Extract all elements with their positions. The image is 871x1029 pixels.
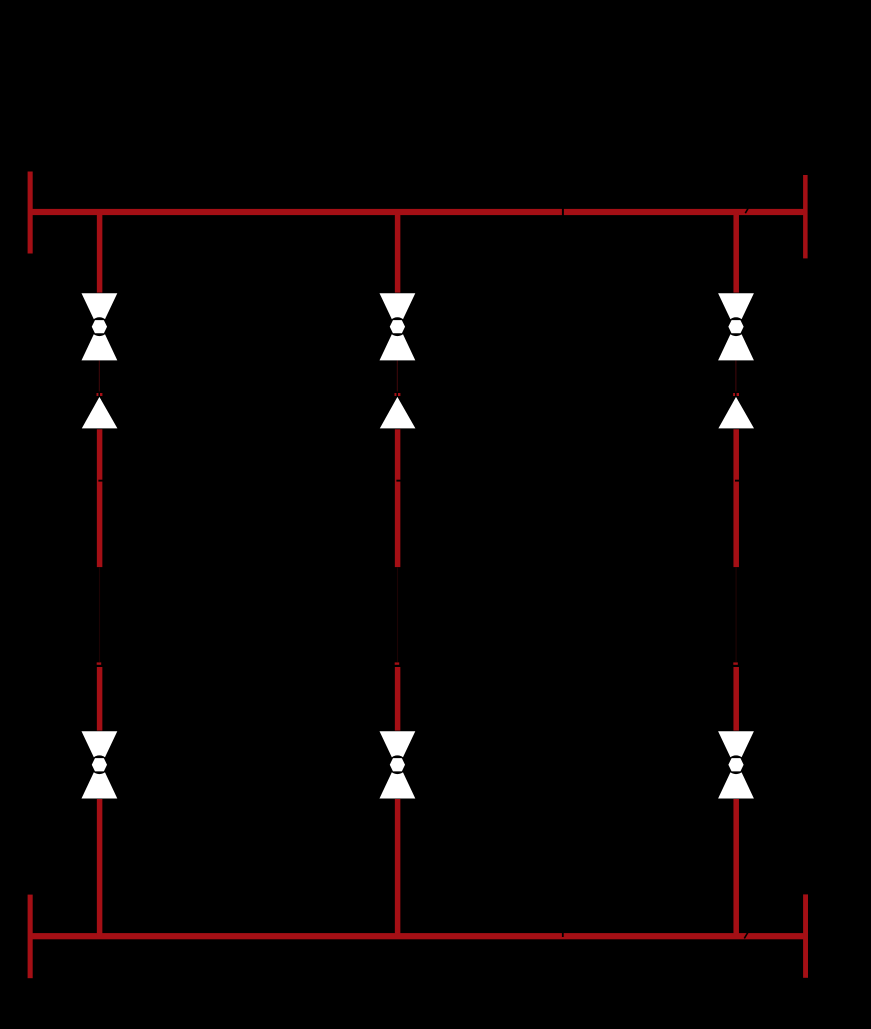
branch 2: hairline pipe seam below valve V2A	[397, 361, 398, 392]
valve V3A (bow-tie gate valve)	[718, 293, 754, 360]
branch 3: red stub above lower pipe segment	[733, 662, 738, 664]
branch 1: red pin dots above check valve CV1	[97, 393, 99, 396]
branch 1: pipe segment from top header to valve V1A	[97, 212, 103, 293]
top header right end cap	[803, 175, 808, 258]
branch 1: hairline pipe seam below valve V1A	[99, 361, 100, 392]
branch 3: pipe segment from top header to valve V3A	[733, 212, 739, 293]
branch 3: pipe segment down to valve V3B	[733, 667, 739, 731]
branch 3: faint pipe seam through pump gap	[736, 567, 737, 662]
check valve CV3 (white up triangle)	[718, 397, 754, 429]
branch 2: black tick crossing pipe (node N2)	[396, 480, 401, 482]
check valve CV2 (white up triangle)	[380, 397, 416, 429]
branch 2: pipe segment down to valve V2B	[395, 667, 401, 731]
bottom header right end cap	[803, 894, 808, 977]
branch 3: red pin dots above check valve CV3	[733, 393, 735, 396]
branch 2: red stub above lower pipe segment	[395, 662, 400, 664]
branch 2: pipe segment from top header to valve V2A	[395, 212, 401, 293]
branch 1: pipe segment below check valve CV1	[97, 429, 103, 567]
branch 1: faint pipe seam through pump gap	[99, 567, 100, 662]
black crossing tick on top header (node T1)	[562, 206, 564, 217]
black crossing tick on bottom header (node B1)	[562, 931, 564, 938]
black slash mark on bottom header	[744, 933, 748, 939]
branch 3: pipe segment below check valve CV3	[733, 429, 739, 567]
branch 3: hairline pipe seam below valve V3A	[735, 361, 736, 392]
valve V2B (bow-tie gate valve)	[380, 731, 416, 798]
valve V1A (bow-tie gate valve)	[82, 293, 118, 360]
valve V1B (bow-tie gate valve)	[82, 731, 118, 798]
top header pipe P1	[30, 209, 806, 215]
branch 2: faint pipe seam through pump gap	[397, 567, 398, 662]
bottom header pipe P2	[30, 933, 806, 939]
branch 2: red pin dots above check valve CV2	[395, 393, 397, 396]
branch 1: red stub above lower pipe segment	[97, 662, 102, 664]
top header left end cap	[28, 172, 33, 254]
branch 1: pipe segment from valve V1B to bottom header	[97, 799, 103, 936]
branch 3: black tick crossing pipe (node N3)	[735, 480, 740, 482]
branch 1: black tick crossing pipe (node N1)	[98, 480, 103, 482]
branch 2: pipe segment from valve V2B to bottom header	[395, 799, 401, 936]
valve V2A (bow-tie gate valve)	[380, 293, 416, 360]
black slash mark on top header	[745, 208, 748, 213]
branch 2: pipe segment below check valve CV2	[395, 429, 401, 567]
bottom header left end cap	[28, 895, 33, 979]
branch 1: pipe segment down to valve V1B	[97, 667, 103, 731]
check valve CV1 (white up triangle)	[82, 397, 118, 429]
branch 3: pipe segment from valve V3B to bottom header	[733, 799, 739, 936]
valve V3B (bow-tie gate valve)	[718, 731, 754, 798]
